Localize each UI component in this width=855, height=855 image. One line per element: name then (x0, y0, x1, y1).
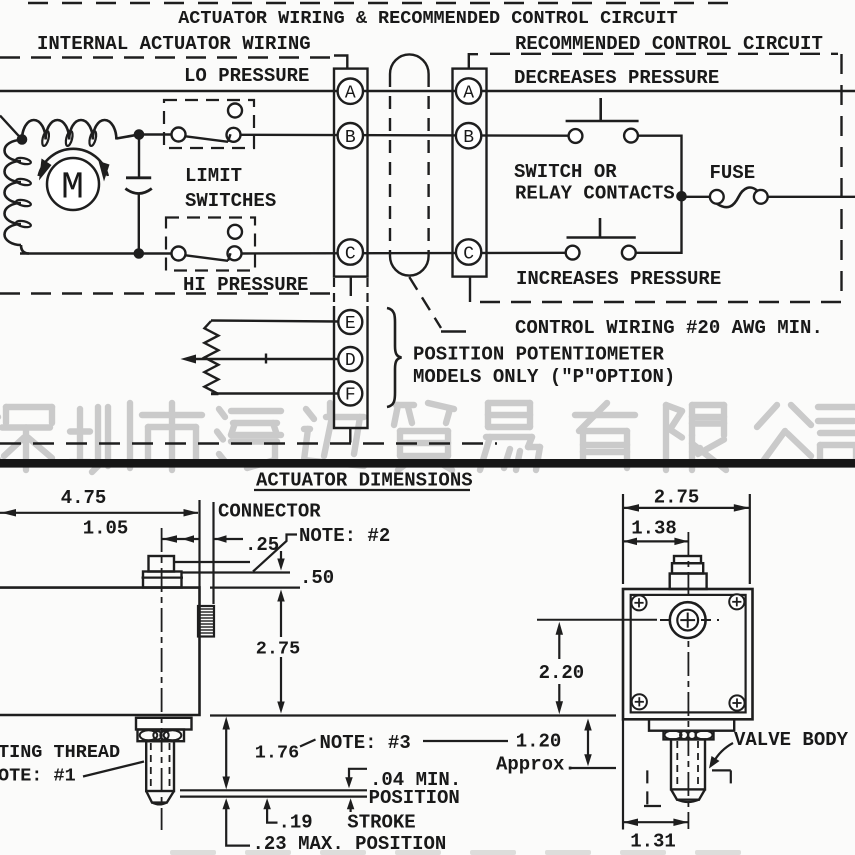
svg-text:INTERNAL ACTUATOR WIRING: INTERNAL ACTUATOR WIRING (37, 33, 311, 55)
terminal C2 (456, 239, 481, 264)
separator thick bar (0, 459, 855, 468)
dim .23 max position (222, 798, 230, 809)
svg-text:M: M (61, 167, 84, 210)
svg-text:TING THREAD: TING THREAD (0, 742, 120, 763)
svg-text:RECOMMENDED CONTROL CIRCUIT: RECOMMENDED CONTROL CIRCUIT (515, 33, 823, 55)
note2 bracket leader (253, 535, 297, 572)
wire row C left (motor bottom) to HI switch (20, 252, 172, 254)
cable pointer dashed diagonal (409, 277, 441, 328)
SW2 upper contact (228, 225, 242, 239)
svg-text:1.05: 1.05 (83, 518, 129, 540)
internal box corner elbow at terminal strip TB1 (334, 56, 347, 69)
dim arrow .50 upper (280, 551, 282, 560)
node dot (677, 192, 687, 202)
SW2 arm (186, 255, 229, 260)
svg-text:B: B (463, 128, 474, 148)
dim .04 bracket (349, 769, 367, 778)
potentiometer R1 bottom lead (211, 392, 338, 394)
internal wiring dashed box top (0, 56, 330, 58)
dim line 2.75 right (623, 507, 750, 509)
junction dot at capacitor bottom (134, 249, 144, 259)
dim arrows .25 (162, 538, 199, 540)
recommended box dashed bottom (480, 301, 842, 303)
svg-text:RELAY CONTACTS: RELAY CONTACTS (515, 183, 675, 205)
svg-text:ACTUATOR WIRING & RECOMMENDED: ACTUATOR WIRING & RECOMMENDED CONTROL CI… (178, 8, 678, 29)
bottom step right drawing (649, 719, 734, 730)
valve body leader (713, 743, 733, 763)
svg-text:MODELS ONLY ("P"OPTION): MODELS ONLY ("P"OPTION) (413, 366, 675, 388)
svg-text:LIMIT: LIMIT (185, 165, 242, 187)
connector cap small (149, 556, 175, 572)
svg-text:C: C (463, 244, 474, 264)
extension lines 2.75 (622, 494, 624, 584)
rotation arrowhead right (99, 161, 110, 182)
strip break dashed left (333, 278, 335, 306)
TB1 bottom stub (350, 277, 352, 296)
SW2 arm tick (228, 253, 231, 260)
inductor winding top (horizontal coil) (22, 120, 116, 140)
svg-text:CONNECTOR: CONNECTOR (218, 501, 321, 523)
wiper tick (265, 354, 267, 364)
wire from pushbutton S1 to node (638, 136, 682, 192)
svg-text:DECREASES PRESSURE: DECREASES PRESSURE (514, 67, 719, 89)
control cable outline top arc (390, 54, 429, 74)
mounting boss step (136, 718, 192, 730)
pushbutton S1 stem (599, 98, 602, 121)
leader to stud (83, 762, 144, 777)
svg-text:A: A (345, 84, 356, 104)
wire left coil bottom elbow (21, 245, 29, 254)
svg-text:1.20: 1.20 (516, 731, 562, 753)
svg-text:1.31: 1.31 (630, 831, 676, 853)
svg-text:STROKE: STROKE (347, 812, 415, 834)
mounting thread stud (146, 741, 174, 791)
rotation arrowhead left (39, 159, 52, 181)
housing outer square (623, 589, 753, 719)
nut right drawing (664, 731, 714, 740)
housing inner square (631, 595, 746, 713)
valve body dashed outline (646, 770, 648, 806)
fuse F1 left circle (710, 190, 724, 204)
TB2 bottom stub (469, 277, 471, 302)
svg-text:VALVE BODY: VALVE BODY (734, 729, 849, 751)
connector leader line upper (174, 561, 250, 563)
dashed tear line above bar (0, 442, 497, 445)
svg-text:B: B (345, 128, 356, 148)
knurled adjustment knob (198, 606, 214, 637)
fuse F1 right circle (754, 190, 768, 204)
top dashed edge (28, 2, 728, 5)
recommended box dashed top (490, 53, 838, 55)
S1 left contact (569, 129, 583, 143)
knob centerline reference (537, 619, 657, 621)
stud right drawing (671, 739, 705, 789)
svg-text:INCREASES PRESSURE: INCREASES PRESSURE (516, 268, 721, 290)
junction dot (17, 135, 27, 145)
internal wiring dashed box bottom (0, 292, 332, 294)
pushbutton S1 bar (566, 120, 639, 123)
SW2 right contact (228, 246, 242, 260)
dim .19 (263, 798, 271, 809)
dim 2.20 (556, 622, 564, 635)
body top extension segment (210, 586, 300, 588)
SW1 left contact (172, 128, 186, 142)
control cable dashed right side (427, 74, 429, 256)
junction dot at capacitor top (134, 130, 144, 140)
svg-text:SWITCH OR: SWITCH OR (514, 161, 617, 183)
centerline right drawing vertical (687, 532, 689, 829)
connector leader line lower (182, 571, 291, 573)
svg-text:HI PRESSURE: HI PRESSURE (183, 274, 308, 296)
svg-text:2.75: 2.75 (654, 487, 700, 509)
control terminal strip TB2 (453, 69, 487, 277)
approx position line (569, 767, 616, 769)
svg-text:ACTUATOR DIMENSIONS: ACTUATOR DIMENSIONS (256, 470, 473, 492)
motor rotation arc (39, 149, 108, 176)
motor M1 circle (47, 158, 99, 210)
control cable bottom arc (390, 256, 429, 276)
svg-text:F: F (345, 386, 356, 406)
terminal F (338, 382, 362, 406)
terminal D (338, 347, 362, 371)
svg-text:1.38: 1.38 (631, 518, 677, 540)
SW1 arm tick (228, 134, 231, 142)
arrow up to lower stroke line (347, 798, 355, 809)
dim 1.31 (622, 719, 624, 829)
wire row C from HI switch through terminal C to pushbutton S2 (242, 252, 567, 255)
S2 left contact (566, 246, 580, 260)
wire row B from LO switch to terminal B (241, 134, 570, 137)
svg-text:CONTROL WIRING #20 AWG MIN.: CONTROL WIRING #20 AWG MIN. (515, 317, 823, 339)
wiper arrowhead (181, 355, 197, 364)
wire row B left segment to LO switch (139, 133, 172, 135)
svg-text:OTE: #1: OTE: #1 (0, 766, 76, 787)
LO pressure limit switch SW1 dashed box (164, 100, 254, 148)
svg-text:A: A (463, 83, 474, 103)
centerline left drawing (161, 528, 163, 830)
capacitor C1 top plate (126, 176, 151, 179)
svg-text:D: D (345, 351, 356, 371)
S2 right contact (622, 246, 636, 260)
dim line 2.75 left (277, 590, 285, 602)
extension line body right edge (198, 500, 200, 587)
svg-text:FUSE: FUSE (710, 162, 756, 184)
TB3 bottom stub (349, 428, 351, 443)
cap stack on housing (674, 556, 701, 563)
strip break dashed right (366, 278, 368, 306)
svg-text:Approx.: Approx. (496, 754, 576, 776)
stud chamfered tip (146, 791, 174, 803)
connector cap base (143, 572, 182, 588)
svg-text:LO PRESSURE: LO PRESSURE (184, 65, 309, 87)
mounting nut (138, 730, 185, 742)
corner screws (631, 595, 646, 610)
terminal E (338, 310, 362, 334)
datum line mounting face (210, 714, 616, 716)
wire coil to capacitor junction (116, 135, 139, 139)
control cable dashed left side (389, 74, 391, 256)
wire row A (0, 90, 855, 92)
actuator body outline (0, 588, 200, 715)
potentiometer R1 zigzag (204, 321, 218, 394)
terminal B2 (456, 123, 481, 148)
watermark 深圳市湾边贸易有限公司 (gray) (0, 403, 855, 472)
wire node to fuse (685, 196, 711, 198)
leader note3 to 1.20 (423, 740, 508, 742)
bottom faint watermark remnants (170, 850, 741, 855)
leader 1.76 to note3 (300, 740, 316, 747)
extension line knob face / connector (212, 502, 214, 604)
potentiometer terminal strip TB3 (334, 306, 368, 428)
svg-text:.19: .19 (279, 812, 313, 834)
SW1 arm (186, 136, 229, 142)
wire fuse to box edge (768, 196, 855, 198)
cable pointer horizontal (441, 330, 466, 332)
potentiometer R1 top lead (211, 321, 338, 322)
SW1 upper contact (228, 104, 242, 118)
svg-text:POSITION: POSITION (369, 787, 460, 809)
dim line 1.38 (623, 540, 688, 542)
terminal B1 (338, 123, 363, 148)
recommended box dashed right edge (840, 54, 842, 302)
svg-text:NOTE: #3: NOTE: #3 (320, 732, 411, 754)
terminal A1 (338, 79, 363, 104)
inductor winding left (vertical coil) (4, 140, 21, 245)
pushbutton S2 bar (567, 236, 636, 239)
svg-text:NOTE: #2: NOTE: #2 (299, 525, 390, 547)
svg-text:SWITCHES: SWITCHES (185, 190, 276, 212)
actuator terminal strip TB1 (334, 69, 368, 277)
svg-text:E: E (345, 314, 356, 334)
capacitor C1 bottom lead (138, 195, 140, 254)
svg-text:4.75: 4.75 (61, 487, 107, 509)
wire from pushbutton S2 to node (635, 201, 681, 253)
SW1 right contact (227, 128, 241, 142)
dim line 4.75 (0, 512, 198, 514)
svg-text:1.76: 1.76 (255, 743, 299, 764)
terminal C1 (338, 239, 363, 264)
stroke position lines (180, 789, 367, 791)
capacitor C1 curved bottom plate (125, 189, 151, 194)
capacitor C1 top lead (138, 135, 140, 177)
wire diagonal lead-in (0, 116, 22, 140)
recommended box corner elbow at strip TB2 (469, 54, 478, 68)
pushbutton S2 stem (599, 218, 602, 238)
dim 1.76 (222, 717, 230, 730)
HI pressure limit switch SW2 dashed box (166, 218, 255, 271)
SW2 left contact (172, 247, 186, 261)
center adjustment knob (670, 602, 706, 638)
svg-text:.50: .50 (300, 567, 334, 589)
svg-text:POSITION POTENTIOMETER: POSITION POTENTIOMETER (413, 344, 664, 366)
fuse F1 S-link (717, 188, 757, 208)
svg-text:2.75: 2.75 (256, 639, 300, 660)
dim 1.20 arrow (584, 719, 592, 731)
svg-text:2.20: 2.20 (539, 662, 585, 684)
svg-text:C: C (345, 244, 356, 264)
brace (387, 308, 402, 407)
S1 right contact (624, 129, 638, 143)
wiper line (189, 358, 338, 360)
terminal A2 (456, 78, 481, 103)
